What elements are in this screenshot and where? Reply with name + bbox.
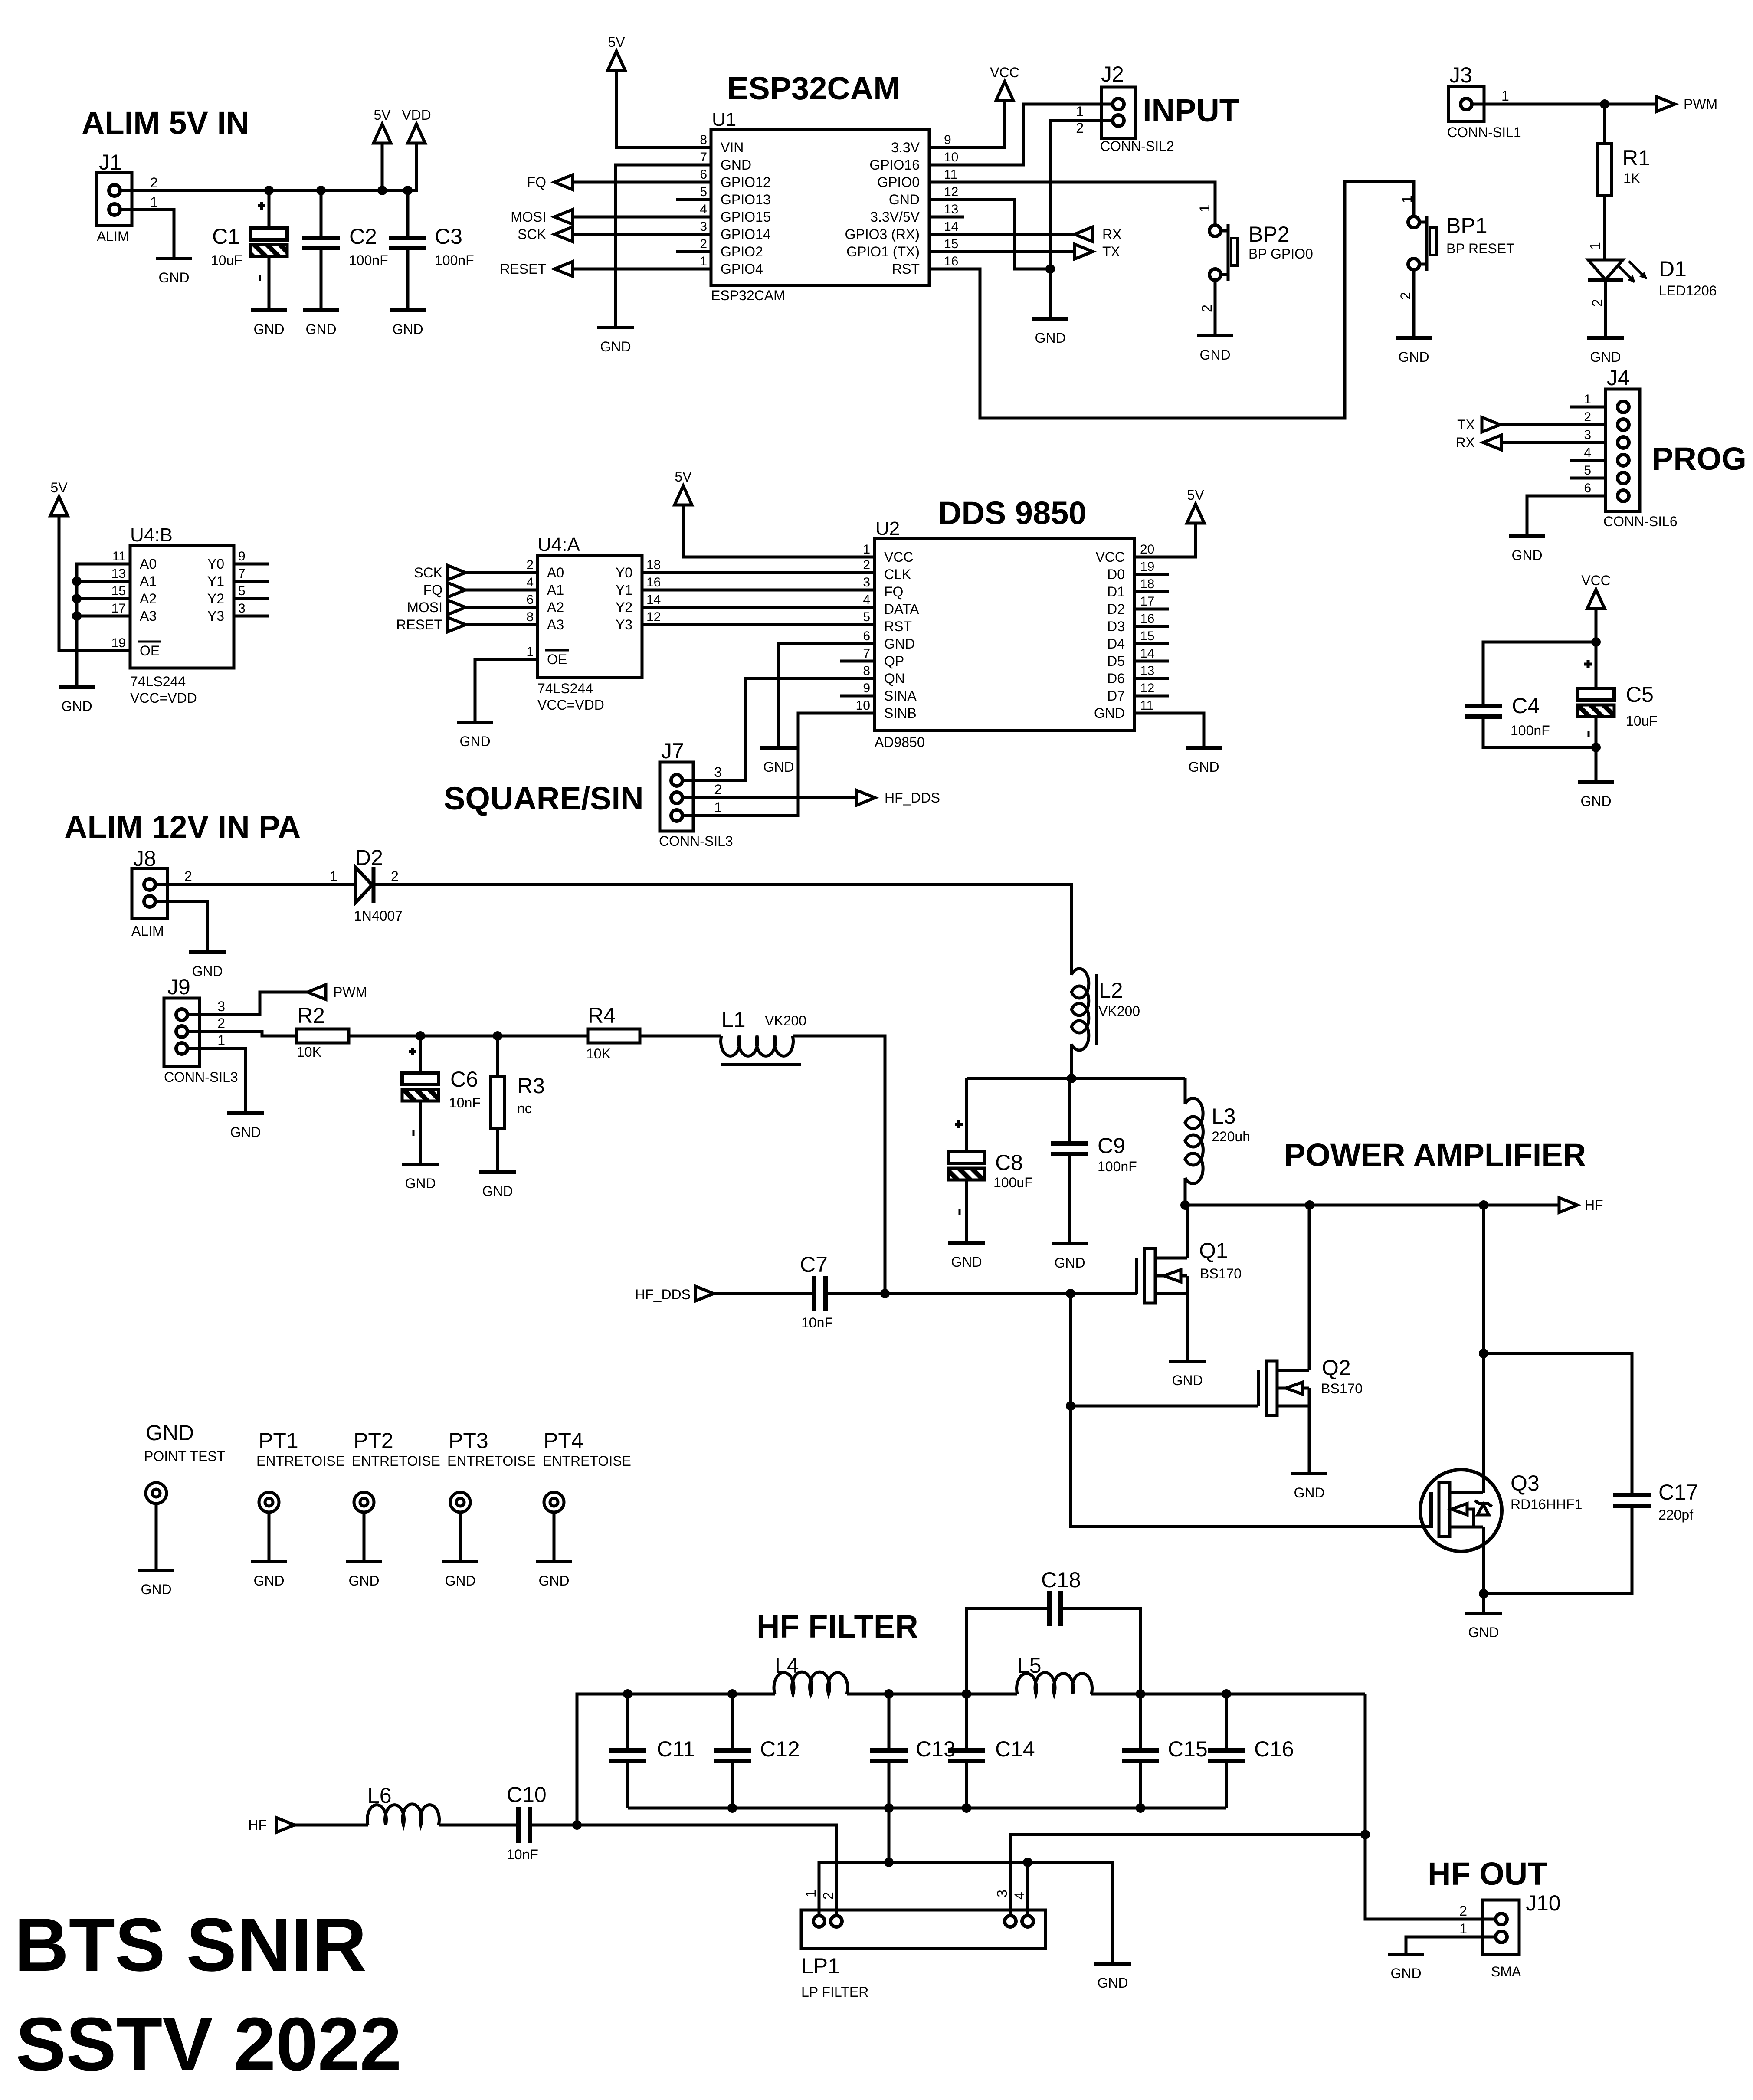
svg-text:LED1206: LED1206 — [1659, 283, 1717, 298]
svg-text:Y0: Y0 — [207, 556, 224, 572]
inductor L3 220uh — [1184, 1078, 1187, 1104]
svg-text:13: 13 — [944, 202, 958, 216]
transistor Q2 drain stub — [1277, 1369, 1309, 1372]
U1 right pin stubs — [929, 147, 964, 269]
IC U4:B 74LS244 body — [130, 546, 234, 668]
svg-text:GND: GND — [1590, 349, 1621, 365]
capacitor C14 — [965, 1694, 968, 1750]
svg-text:9: 9 — [944, 133, 951, 147]
svg-text:L2: L2 — [1099, 978, 1123, 1002]
wire filter bottom rail — [628, 1807, 1226, 1810]
transistor Q2 gate plate — [1257, 1370, 1260, 1406]
svg-text:74LS244: 74LS244 — [130, 674, 186, 689]
svg-text:15: 15 — [944, 237, 958, 251]
wire R2 to R4 node — [349, 1035, 588, 1038]
svg-text:5: 5 — [238, 584, 246, 598]
svg-text:10: 10 — [856, 698, 870, 713]
svg-text:C18: C18 — [1041, 1568, 1081, 1592]
svg-text:9: 9 — [238, 549, 246, 563]
svg-text:L3: L3 — [1212, 1104, 1236, 1128]
svg-text:GND: GND — [1390, 1966, 1421, 1981]
svg-text:GPIO0: GPIO0 — [877, 174, 920, 190]
svg-text:1: 1 — [863, 542, 870, 557]
U4:A input pin numbers — [526, 558, 534, 659]
svg-text:VCC=VDD: VCC=VDD — [130, 690, 197, 706]
svg-text:GND: GND — [445, 1573, 475, 1589]
svg-text:5V: 5V — [50, 480, 68, 495]
svg-text:100nF: 100nF — [435, 252, 474, 268]
wire U2 GND pin11 to ground — [1134, 713, 1204, 748]
ground U2 pin11 — [1186, 746, 1222, 750]
svg-text:14: 14 — [944, 220, 958, 234]
connector J2 — [1101, 87, 1136, 138]
svg-text:1: 1 — [150, 194, 158, 210]
svg-text:5: 5 — [700, 185, 707, 199]
wire C4 branch top — [1483, 642, 1596, 706]
svg-text:R2: R2 — [297, 1003, 325, 1028]
wire J9 pin3 to PWM — [187, 992, 308, 1015]
svg-text:19: 19 — [111, 636, 126, 650]
svg-text:10K: 10K — [297, 1044, 321, 1060]
svg-text:PT2: PT2 — [354, 1428, 393, 1453]
svg-text:7: 7 — [863, 646, 870, 661]
svg-text:U4:B: U4:B — [130, 524, 173, 546]
svg-text:10nF: 10nF — [801, 1315, 833, 1330]
ground BP1 — [1396, 336, 1432, 340]
svg-text:17: 17 — [1140, 594, 1154, 609]
svg-text:GND: GND — [884, 636, 915, 652]
wire 5V arrow riser — [381, 143, 384, 190]
svg-text:Q2: Q2 — [1322, 1356, 1351, 1380]
svg-text:GND: GND — [1511, 547, 1542, 563]
transistor Q1 drain stub — [1155, 1257, 1187, 1260]
svg-text:HF: HF — [1585, 1197, 1603, 1213]
svg-text:18: 18 — [1140, 577, 1154, 591]
svg-text:C14: C14 — [995, 1737, 1035, 1761]
ground C4 C5 — [1578, 780, 1614, 784]
svg-text:2: 2 — [526, 558, 534, 572]
ground U4:B inputs — [59, 685, 95, 689]
svg-text:R3: R3 — [517, 1074, 545, 1098]
svg-text:L1: L1 — [721, 1008, 746, 1032]
svg-text:5V: 5V — [675, 469, 692, 485]
svg-text:ALIM 12V IN PA: ALIM 12V IN PA — [64, 809, 301, 845]
svg-text:GPIO3 (RX): GPIO3 (RX) — [845, 226, 920, 242]
svg-text:TX: TX — [1457, 417, 1475, 432]
svg-text:2: 2 — [700, 237, 707, 251]
ground J1 — [156, 257, 192, 260]
svg-text:GND: GND — [538, 1573, 569, 1589]
svg-text:2: 2 — [1199, 305, 1215, 312]
svg-text:3: 3 — [238, 601, 246, 616]
svg-text:10K: 10K — [586, 1046, 611, 1061]
wire D2 cathode to L2 — [374, 885, 1071, 975]
transistor Q2 channel bar — [1266, 1361, 1277, 1415]
transistor Q1 channel bar — [1144, 1248, 1155, 1303]
svg-text:C4: C4 — [1512, 694, 1540, 718]
wire U1 GND pin7 — [616, 165, 676, 328]
junction C16 top — [1222, 1689, 1231, 1699]
ground J4 — [1509, 534, 1545, 538]
svg-text:BP2: BP2 — [1248, 222, 1290, 246]
junction U4:B A1 — [72, 577, 82, 586]
svg-text:VCC: VCC — [1581, 573, 1611, 588]
wire Q2 source to ground — [1308, 1406, 1311, 1474]
svg-text:3.3V/5V: 3.3V/5V — [870, 209, 920, 225]
wire filter top rail — [577, 1694, 775, 1825]
U1 right pin names — [845, 140, 920, 277]
svg-text:12: 12 — [646, 610, 661, 624]
svg-text:ENTRETOISE: ENTRETOISE — [447, 1453, 536, 1469]
svg-text:17: 17 — [111, 601, 126, 616]
wire U1 3.3V pin9 to VCC — [964, 101, 1005, 147]
junction Q3 drain C17 branch — [1479, 1349, 1488, 1358]
power flag 5V at U2 VCC pin1 — [675, 486, 692, 505]
svg-text:8: 8 — [526, 610, 534, 624]
ground Q2 — [1291, 1472, 1327, 1475]
svg-text:GND: GND — [763, 759, 794, 775]
junction C6 node — [416, 1031, 425, 1041]
svg-text:15: 15 — [111, 584, 126, 598]
junction C2 node — [316, 186, 326, 195]
svg-text:1K: 1K — [1623, 170, 1640, 186]
inductor L4 — [774, 1672, 848, 1694]
svg-text:2: 2 — [1459, 1903, 1467, 1919]
ground LP1 net — [1094, 1962, 1131, 1966]
svg-text:CONN-SIL6: CONN-SIL6 — [1603, 514, 1678, 529]
svg-text:GND: GND — [721, 157, 751, 173]
svg-text:1: 1 — [1197, 204, 1212, 212]
junction C12 bottom — [727, 1803, 737, 1813]
wire R4 to L1 — [640, 1035, 721, 1038]
ground J2 — [1032, 317, 1068, 321]
svg-text:15: 15 — [1140, 629, 1154, 643]
svg-text:GPIO1 (TX): GPIO1 (TX) — [846, 244, 920, 259]
svg-text:1: 1 — [330, 868, 337, 884]
resistor R2 10K — [297, 1029, 349, 1043]
ground GND pad — [138, 1569, 174, 1572]
svg-text:Q1: Q1 — [1199, 1238, 1228, 1263]
U4:A input pin names — [545, 565, 569, 667]
net tag FQ to U4:A — [465, 589, 537, 592]
wire Q1 source to ground — [1186, 1294, 1189, 1361]
svg-text:QN: QN — [884, 671, 905, 686]
diode D2 1N4007 — [356, 868, 372, 902]
wire LP1 pin1 net — [819, 1862, 1113, 1964]
svg-text:J3: J3 — [1449, 63, 1472, 87]
ground R3 — [479, 1170, 516, 1174]
svg-text:ENTRETOISE: ENTRETOISE — [352, 1453, 440, 1469]
U4:B output pin names — [207, 556, 224, 624]
connector J8 — [132, 868, 167, 918]
test point PT3 ENTRETOISE — [447, 1428, 536, 1562]
wire J8 pin2 to D2 anode — [155, 883, 355, 886]
svg-text:GND: GND — [253, 321, 284, 337]
U4:A output pin numbers — [646, 558, 661, 624]
svg-text:GND: GND — [348, 1573, 379, 1589]
svg-text:11: 11 — [1140, 698, 1153, 713]
wire L6 to C10 — [439, 1824, 518, 1827]
svg-text:FQ: FQ — [884, 584, 903, 600]
junction C5 ground node — [1591, 743, 1601, 752]
svg-text:PT4: PT4 — [544, 1428, 583, 1453]
power flag 5V at U1 VIN — [608, 51, 625, 70]
svg-text:SINB: SINB — [884, 705, 917, 721]
svg-text:13: 13 — [111, 567, 126, 581]
svg-text:ESP32CAM: ESP32CAM — [727, 70, 900, 106]
U1 left pin names — [721, 140, 771, 277]
svg-text:3: 3 — [994, 1890, 1010, 1897]
transistor Q3 RD16HHF1 — [1420, 1470, 1502, 1551]
svg-text:PWM: PWM — [1684, 96, 1717, 112]
wire J10 riser — [1365, 1694, 1496, 1919]
svg-text:L6: L6 — [367, 1783, 392, 1808]
wire J2 pin2 to ground — [1050, 121, 1113, 319]
svg-text:A0: A0 — [547, 565, 564, 580]
svg-text:1: 1 — [217, 1032, 225, 1048]
connector J7 — [660, 762, 693, 831]
wire C5 bottom to ground — [1595, 717, 1598, 782]
net tag HF_DDS output — [857, 790, 875, 805]
svg-text:ALIM 5V IN: ALIM 5V IN — [82, 105, 249, 141]
U4:B output pin numbers — [238, 549, 246, 616]
svg-text:SQUARE/SIN: SQUARE/SIN — [444, 780, 644, 816]
capacitor C10 10nF — [518, 1807, 530, 1843]
svg-text:HF_DDS: HF_DDS — [635, 1287, 691, 1302]
net tag SCK — [572, 233, 676, 236]
resistor R1 1K — [1603, 104, 1606, 144]
wire J8 pin1 to ground — [155, 901, 207, 952]
svg-text:D4: D4 — [1107, 636, 1125, 652]
capacitor C2 100nF — [320, 190, 323, 238]
capacitor C11 — [626, 1694, 629, 1750]
push button BP1 — [1408, 216, 1419, 228]
wire U2 VCC pin20 to 5V — [1134, 523, 1196, 557]
svg-text:HF FILTER: HF FILTER — [757, 1609, 918, 1645]
svg-text:7: 7 — [700, 150, 707, 164]
IC U2 AD9850 body — [875, 538, 1134, 731]
svg-text:BS170: BS170 — [1200, 1266, 1242, 1281]
net tag PWM input — [308, 985, 326, 999]
svg-text:J9: J9 — [167, 975, 190, 999]
svg-text:SINA: SINA — [884, 688, 917, 704]
capacitor C7 10nF — [814, 1276, 826, 1311]
svg-text:16: 16 — [646, 575, 661, 590]
wire Q3 source to ground node — [1482, 1527, 1485, 1594]
svg-text:GND: GND — [1097, 1975, 1128, 1991]
ground PT4 — [536, 1560, 572, 1563]
svg-text:100nF: 100nF — [1098, 1159, 1137, 1174]
svg-text:GND: GND — [158, 270, 189, 285]
U4:A output pin names — [616, 565, 632, 632]
svg-text:GND: GND — [1580, 793, 1611, 809]
svg-text:ENTRETOISE: ENTRETOISE — [543, 1453, 631, 1469]
junction PWM R1 node — [1600, 99, 1609, 109]
wire J9 pin1 to ground — [187, 1048, 246, 1113]
wire Q3 drain to node — [1482, 1205, 1485, 1493]
svg-text:6: 6 — [700, 167, 707, 182]
svg-text:GND: GND — [600, 339, 631, 354]
svg-text:2: 2 — [863, 558, 870, 572]
svg-text:2: 2 — [217, 1016, 225, 1031]
svg-text:1: 1 — [714, 799, 722, 815]
U2 right pin names — [1094, 549, 1125, 721]
net tag RESET — [572, 268, 676, 271]
svg-text:10uF: 10uF — [211, 252, 242, 268]
power flag 5V at U4:B OE — [50, 497, 68, 516]
wire LP1 pin3 net — [1010, 1835, 1365, 1916]
ground C8 — [948, 1241, 985, 1245]
svg-text:CLK: CLK — [884, 567, 911, 582]
U4:B input pin numbers — [111, 549, 126, 650]
svg-text:RST: RST — [892, 261, 920, 277]
capacitor C8 100uF — [965, 1078, 968, 1152]
svg-text:5V: 5V — [608, 34, 625, 50]
capacitor C1 10uF — [268, 190, 271, 228]
svg-text:GND: GND — [951, 1254, 982, 1270]
ground C2 — [303, 308, 339, 312]
svg-text:2: 2 — [1398, 292, 1413, 300]
svg-text:Y1: Y1 — [207, 573, 224, 589]
svg-text:HF OUT: HF OUT — [1428, 1856, 1547, 1892]
U2 side pin numbers for CLK FQ DATA RST — [863, 558, 870, 624]
svg-text:LP FILTER: LP FILTER — [801, 1984, 868, 2000]
svg-text:AD9850: AD9850 — [875, 734, 925, 750]
svg-text:L5: L5 — [1017, 1653, 1042, 1677]
net tag TX at J4 — [1500, 423, 1606, 426]
svg-text:4: 4 — [700, 202, 707, 216]
junction C7 L1 node — [880, 1289, 890, 1298]
svg-text:CONN-SIL2: CONN-SIL2 — [1100, 138, 1174, 154]
svg-text:QP: QP — [884, 653, 904, 669]
svg-text:100nF: 100nF — [349, 252, 388, 268]
junction C14 bottom — [962, 1803, 971, 1813]
svg-text:C7: C7 — [800, 1252, 828, 1277]
junction Q3 source C17 node — [1479, 1589, 1488, 1599]
svg-text:6: 6 — [526, 593, 534, 607]
wire gate chain down to Q3 — [1071, 1406, 1433, 1527]
svg-text:SMA: SMA — [1491, 1964, 1521, 1979]
svg-text:C10: C10 — [507, 1782, 547, 1807]
wires U4:A Y outputs to U2 — [642, 573, 875, 625]
svg-text:1: 1 — [1584, 392, 1591, 406]
svg-text:1: 1 — [1501, 88, 1509, 104]
svg-text:RST: RST — [884, 619, 912, 634]
svg-text:ALIM: ALIM — [97, 229, 129, 244]
svg-text:7: 7 — [238, 567, 246, 581]
IC U4:A 74LS244 body — [537, 555, 642, 678]
junction U4:B A2 — [72, 594, 82, 603]
junction Q3 drain node — [1479, 1200, 1488, 1210]
svg-text:J2: J2 — [1101, 62, 1124, 86]
test point PT4 ENTRETOISE — [543, 1428, 631, 1562]
svg-text:220uh: 220uh — [1212, 1129, 1250, 1144]
svg-text:PWM: PWM — [333, 984, 367, 1000]
svg-text:ENTRETOISE: ENTRETOISE — [256, 1453, 345, 1469]
junction C15 C18 top — [1136, 1689, 1145, 1699]
svg-text:BP1: BP1 — [1446, 213, 1488, 238]
svg-text:J8: J8 — [133, 846, 156, 871]
svg-text:11: 11 — [944, 167, 957, 182]
svg-text:U4:A: U4:A — [537, 534, 580, 555]
svg-text:GND: GND — [1094, 705, 1125, 721]
svg-text:GPIO12: GPIO12 — [721, 174, 771, 190]
svg-text:MOSI: MOSI — [407, 600, 442, 615]
svg-text:LP1: LP1 — [801, 1954, 840, 1978]
wire Q3 source ground stem — [1482, 1594, 1485, 1613]
junction C13 bottom — [884, 1803, 894, 1813]
wire U2 GND pin6 to ground — [779, 644, 875, 748]
U2 data pin stubs — [1134, 574, 1169, 696]
svg-text:220pf: 220pf — [1658, 1507, 1693, 1523]
svg-text:OE: OE — [140, 643, 160, 659]
svg-text:BS170: BS170 — [1321, 1381, 1363, 1396]
svg-text:A2: A2 — [140, 591, 157, 606]
svg-text:4: 4 — [1584, 446, 1591, 460]
svg-text:J4: J4 — [1607, 366, 1630, 390]
svg-text:GND: GND — [889, 192, 920, 207]
junction C14 C18 top — [962, 1689, 971, 1699]
svg-text:C3: C3 — [435, 224, 462, 249]
svg-text:SCK: SCK — [414, 565, 442, 580]
ground J8 — [189, 950, 226, 954]
svg-text:GND: GND — [1188, 759, 1219, 775]
svg-text:RD16HHF1: RD16HHF1 — [1511, 1497, 1582, 1512]
ground C9 — [1052, 1242, 1088, 1245]
wire U2 SINB pin10 to J7 pin1 — [682, 713, 875, 816]
connector J10 SMA — [1483, 1900, 1519, 1954]
wire gate chain down to Q2 — [1069, 1294, 1072, 1406]
svg-text:GND: GND — [1468, 1625, 1499, 1640]
svg-text:BP RESET: BP RESET — [1446, 241, 1515, 256]
svg-text:DDS 9850: DDS 9850 — [938, 495, 1086, 531]
svg-text:10nF: 10nF — [449, 1095, 481, 1111]
wire 5V to U2 VCC pin1 — [683, 505, 875, 557]
svg-text:GND: GND — [482, 1183, 513, 1199]
transistor Q1 substrate arrow — [1155, 1274, 1164, 1278]
svg-text:1: 1 — [1399, 195, 1415, 203]
svg-text:2: 2 — [1584, 410, 1591, 424]
svg-text:6: 6 — [1584, 481, 1591, 495]
svg-text:C12: C12 — [760, 1737, 800, 1761]
svg-text:GND: GND — [1035, 330, 1065, 346]
power flag 5V at U2 pin20 — [1187, 504, 1204, 523]
inductor L2 VK200 — [1071, 969, 1089, 1050]
svg-text:nc: nc — [517, 1101, 532, 1116]
junction J2 ground net — [1045, 264, 1055, 274]
svg-text:3: 3 — [1584, 428, 1591, 442]
svg-text:A1: A1 — [547, 582, 564, 598]
wire supply node rail — [967, 1077, 1185, 1080]
svg-text:OE: OE — [547, 652, 567, 667]
junction gate chain node — [1066, 1289, 1075, 1298]
svg-text:GND: GND — [405, 1176, 436, 1191]
wire U1 RST to BP1 — [964, 182, 1414, 418]
transistor Q1 gate plate — [1135, 1258, 1138, 1294]
svg-text:GPIO2: GPIO2 — [721, 244, 763, 259]
svg-text:3.3V: 3.3V — [891, 140, 920, 155]
power flag VCC at U1 — [996, 82, 1013, 101]
svg-text:C8: C8 — [995, 1150, 1023, 1175]
svg-text:C15: C15 — [1168, 1737, 1208, 1761]
svg-text:5V: 5V — [374, 107, 391, 123]
transistor Q2 substrate arrow — [1277, 1387, 1286, 1390]
wire U4:B A0-A3 bus to ground — [77, 564, 130, 687]
power flag VCC at C5 — [1587, 590, 1605, 609]
svg-text:C1: C1 — [212, 224, 240, 249]
svg-text:GPIO13: GPIO13 — [721, 192, 771, 207]
svg-text:8: 8 — [863, 664, 870, 678]
